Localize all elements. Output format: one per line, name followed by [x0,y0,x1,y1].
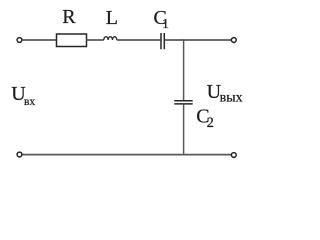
inductor L [104,37,117,40]
capacitor C2 [174,101,192,104]
resistor R [57,34,87,47]
label U_vx (input voltage) [11,83,35,108]
terminal input bottom-left [17,152,22,157]
label U_vyx (output voltage) [207,81,243,106]
svg-text:R: R [62,6,76,28]
terminal output top-right [231,38,236,43]
svg-text:L: L [106,7,118,29]
svg-text:1: 1 [162,17,169,32]
svg-text:вх: вх [24,96,35,108]
wire junction down to C2 [183,40,185,100]
wire C1 to output terminal [165,39,231,41]
bottom wire [22,154,231,156]
node junction top [183,39,185,41]
label C1 [154,7,170,32]
label C2 [196,106,214,132]
terminal input top-left [17,38,22,43]
wire top-left terminal to resistor [22,39,56,41]
capacitor C1 [161,33,164,49]
wire resistor to inductor [87,39,104,41]
wire inductor to capacitor C1 [117,39,161,41]
terminal output bottom-right [231,153,236,158]
svg-text:2: 2 [207,115,214,131]
svg-text:вых: вых [220,91,243,106]
wire C2 down to bottom wire [183,105,185,155]
